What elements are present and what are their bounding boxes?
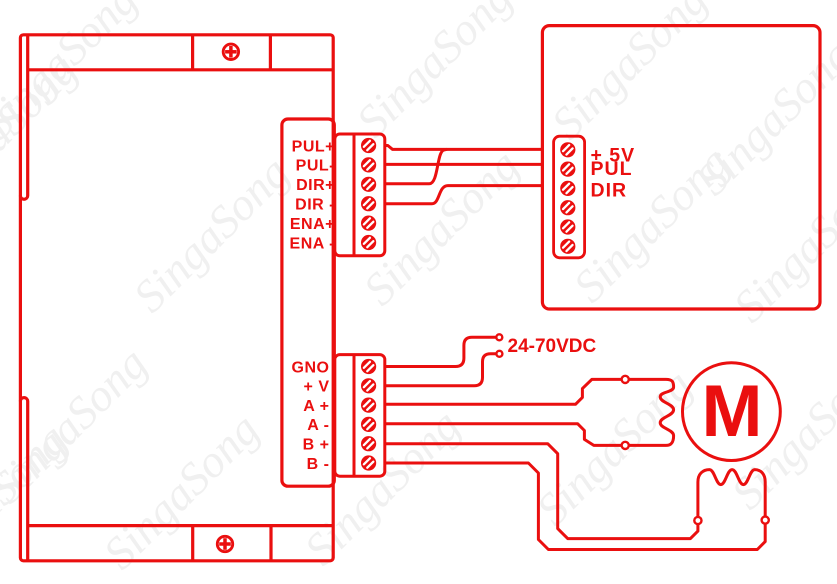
terminal circle winding B left	[694, 517, 701, 524]
wire DIR- to DIR	[385, 186, 543, 204]
J1 screw PUL+	[361, 138, 376, 153]
stepper driver U1 body	[20, 35, 333, 561]
wire+winding phase A loop	[385, 379, 674, 445]
J3 screw 4	[560, 200, 575, 215]
J1 screw ENA+	[361, 216, 376, 231]
J3 screw 6	[560, 239, 575, 254]
terminal circle 24-70VDC -	[496, 351, 502, 357]
winding phase B	[698, 470, 765, 517]
J1 inner divider	[353, 134, 356, 256]
driver terminal label strip	[282, 119, 334, 486]
terminal circle winding A bottom	[622, 442, 629, 449]
driver rail-clip inner line top	[20, 35, 27, 199]
svg-text:PUL: PUL	[591, 158, 633, 180]
svg-text:SingaSong: SingaSong	[93, 403, 268, 578]
driver top panel screw	[223, 44, 238, 59]
J3 screw +5V	[560, 142, 575, 157]
svg-text:A -: A -	[307, 417, 329, 434]
driver top panel divider right	[269, 35, 272, 70]
svg-text:B +: B +	[303, 437, 330, 454]
J2 inner divider	[353, 355, 356, 477]
terminal circle 24-70VDC +	[496, 334, 502, 340]
wire GNO to 24-70VDC +	[385, 337, 496, 366]
driver top panel divider left	[191, 35, 194, 70]
driver bottom panel line	[28, 524, 334, 527]
driver rail-clip inner line bottom	[20, 398, 27, 561]
terminal circle winding A top	[622, 376, 629, 383]
wire PUL- to PUL	[385, 163, 543, 166]
J2 screw GNO	[361, 359, 376, 374]
wire DIR+ to +5V line	[385, 149, 447, 184]
wire PUL+ to +5V	[385, 146, 543, 150]
svg-text:DIR+: DIR+	[296, 177, 335, 194]
J2 screw A+	[361, 398, 376, 413]
J3 screw PUL	[560, 162, 575, 177]
driver signal terminal block J1	[335, 134, 385, 256]
driver bottom panel screw	[217, 536, 232, 551]
wire B+ to winding B	[385, 444, 698, 539]
svg-text:SingaSong: SingaSong	[541, 0, 716, 149]
J1 screw DIR+	[361, 177, 376, 192]
terminal circle winding B right	[762, 517, 769, 524]
svg-text:B -: B -	[307, 456, 330, 473]
svg-text:A +: A +	[303, 398, 329, 415]
svg-text:ENA -: ENA -	[290, 235, 335, 252]
svg-text:PUL-: PUL-	[296, 158, 335, 175]
wire +V to 24-70VDC -	[385, 354, 496, 386]
svg-text:24-70VDC: 24-70VDC	[508, 336, 597, 357]
driver power terminal block J2	[335, 355, 385, 477]
svg-text:DIR -: DIR -	[295, 197, 335, 214]
J2 screw B+	[361, 436, 376, 451]
motor M1 circle	[683, 363, 781, 461]
driver top panel line	[28, 68, 334, 71]
controller box U2	[542, 26, 820, 309]
J2 screw B-	[361, 455, 376, 470]
J1 screw PUL-	[361, 157, 376, 172]
J1 screw DIR-	[361, 196, 376, 211]
driver bottom panel divider right	[269, 526, 272, 561]
svg-text:DIR: DIR	[591, 180, 628, 202]
controller terminal strip J3	[554, 136, 585, 258]
J3 screw DIR	[560, 181, 575, 196]
svg-text:GNO: GNO	[292, 359, 330, 376]
svg-text:SingaSong: SingaSong	[0, 413, 77, 584]
J2 screw A-	[361, 417, 376, 432]
svg-text:ENA+: ENA+	[290, 216, 335, 233]
wire B- to winding B	[385, 463, 765, 550]
svg-text:M: M	[702, 371, 763, 452]
svg-text:SingaSong: SingaSong	[123, 146, 298, 321]
driver bottom panel divider left	[191, 526, 194, 561]
J2 screw +V	[361, 378, 376, 393]
svg-text:PUL+: PUL+	[292, 138, 335, 155]
J3 screw 5	[560, 219, 575, 234]
svg-text:SingaSong: SingaSong	[346, 0, 521, 147]
svg-text:+ V: + V	[304, 379, 330, 396]
J1 screw ENA-	[361, 235, 376, 250]
